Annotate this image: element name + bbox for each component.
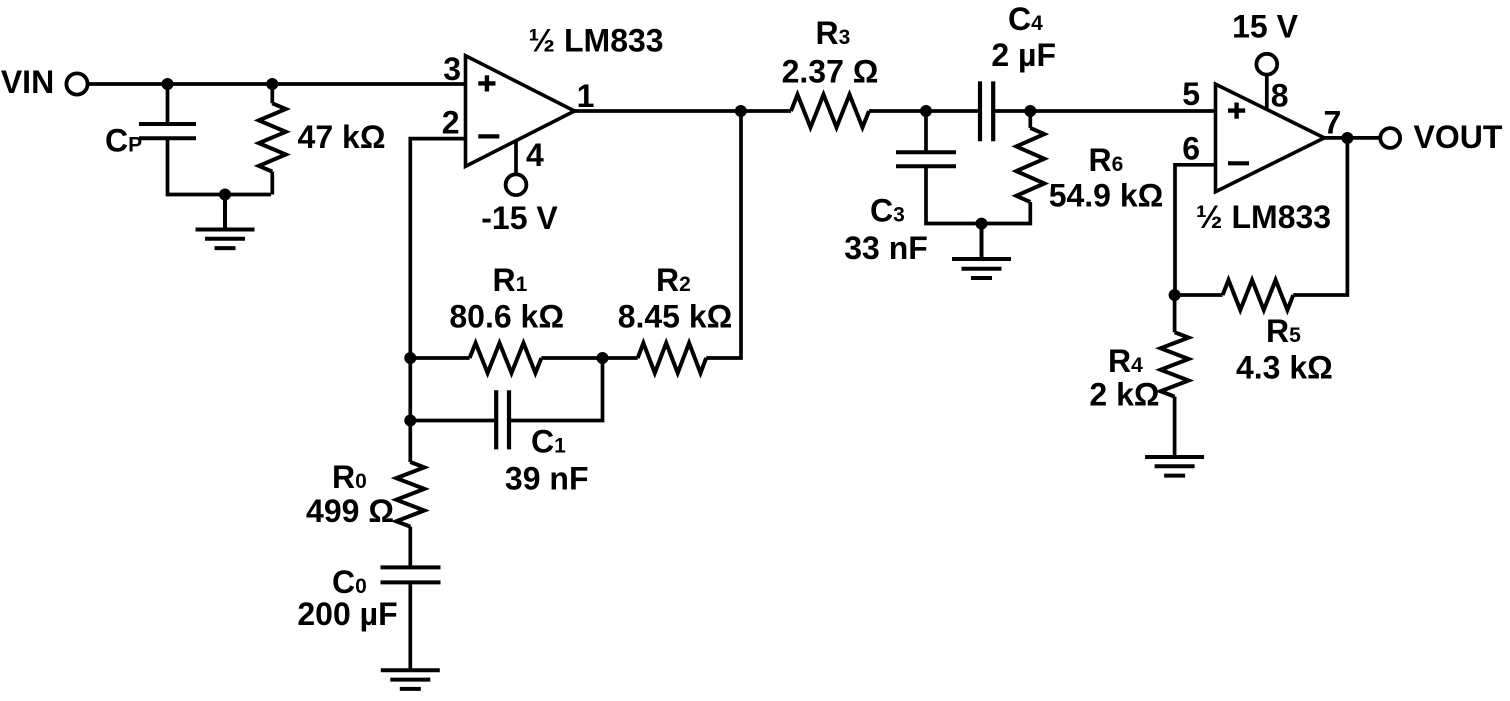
resistor R2 [638, 343, 707, 373]
svg-text:½ LM833: ½ LM833 [1196, 199, 1331, 235]
wire VIN to pin 3 [88, 82, 466, 86]
pin 4 stub [514, 141, 518, 174]
capacitor C3 [896, 111, 1030, 224]
wire C4 to pin 5 [993, 109, 1215, 113]
svg-text:4.3 kΩ: 4.3 kΩ [1236, 350, 1333, 386]
ground (C3/R6 node) [952, 224, 1011, 279]
svg-text:8: 8 [1271, 78, 1289, 114]
resistor R3 [791, 95, 869, 128]
wire U1 output to R3 [575, 109, 792, 113]
resistor R5 [1223, 280, 1294, 310]
svg-text:2: 2 [442, 105, 460, 141]
wire R5 to output node [1293, 138, 1347, 295]
wire feedback node to R5 [1175, 293, 1223, 297]
junction at R1 right [597, 352, 609, 364]
ground (C0) [381, 670, 440, 689]
junction at feedback node [1169, 289, 1181, 301]
resistor R0 [396, 421, 424, 566]
svg-text:15 V: 15 V [1232, 8, 1298, 44]
op-amp U2 minus input mark [1228, 161, 1249, 165]
junction at 47k top [266, 78, 278, 90]
svg-text:4: 4 [526, 137, 544, 173]
svg-text:8.45 kΩ: 8.45 kΩ [618, 299, 733, 335]
svg-text:VIN: VIN [1, 64, 54, 100]
svg-text:80.6 kΩ: 80.6 kΩ [449, 299, 564, 335]
svg-text:54.9 kΩ: 54.9 kΩ [1049, 178, 1164, 214]
junction at C3 ground node [976, 218, 988, 230]
op-amp U1 plus input mark [478, 75, 495, 91]
capacitor C4 [980, 81, 993, 141]
capacitor CP [139, 84, 271, 195]
op-amp U1 triangle [466, 56, 575, 167]
svg-text:-15 V: -15 V [481, 200, 558, 236]
op-amp U1 minus input mark [478, 134, 499, 138]
svg-text:6: 6 [1182, 131, 1200, 167]
wire R3 to C4 [869, 109, 980, 113]
pin 8 stub [1265, 75, 1269, 110]
junction at U2 output [1341, 132, 1353, 144]
svg-text:5: 5 [1182, 76, 1200, 112]
svg-text:1: 1 [577, 78, 595, 114]
svg-text:VOUT: VOUT [1414, 119, 1503, 155]
resistor 47 kOhm [259, 84, 286, 195]
terminal VOUT [1380, 128, 1400, 148]
wire R2 to output node [706, 111, 741, 358]
resistor R6 [1016, 111, 1044, 202]
ground (R4) [1145, 457, 1204, 476]
svg-text:2 µF: 2 µF [991, 37, 1056, 73]
junction at R6 top [1024, 105, 1036, 117]
junction at R1 left [404, 352, 416, 364]
svg-text:2.37 Ω: 2.37 Ω [782, 54, 879, 90]
junction at CP [162, 78, 174, 90]
junction at U1 output [735, 105, 747, 117]
svg-text:47 kΩ: 47 kΩ [298, 119, 386, 155]
svg-text:200 µF: 200 µF [297, 596, 397, 632]
op-amp U2 triangle [1216, 84, 1325, 192]
wire pin 2 feedback vertical [410, 139, 465, 421]
capacitor C1 [410, 358, 602, 449]
terminal 15 V (pin 8) [1256, 54, 1277, 75]
op-amp U2 plus input mark [1228, 103, 1245, 119]
wire pin 6 to feedback node [1175, 165, 1216, 295]
resistor R1 [470, 343, 542, 373]
svg-text:33 nF: 33 nF [844, 230, 928, 266]
terminal VIN [66, 73, 87, 94]
terminal -15 V (pin 4) [506, 174, 527, 195]
svg-text:499 Ω: 499 Ω [306, 493, 394, 529]
svg-text:39 nF: 39 nF [505, 460, 589, 496]
svg-text:2 kΩ: 2 kΩ [1089, 377, 1159, 413]
resistor R4 [1161, 295, 1189, 457]
capacitor C0 [381, 567, 441, 670]
wire U2 output [1324, 136, 1380, 140]
svg-text:½ LM833: ½ LM833 [528, 23, 663, 59]
svg-text:7: 7 [1324, 105, 1342, 141]
ground (input network) [196, 195, 255, 249]
junction at C1 left [404, 415, 416, 427]
resistor R1 leads [410, 356, 469, 360]
junction at C3 top [920, 105, 932, 117]
junction at ground node [219, 189, 231, 201]
wire R1 to R2 [541, 356, 637, 360]
svg-text:3: 3 [443, 51, 461, 87]
